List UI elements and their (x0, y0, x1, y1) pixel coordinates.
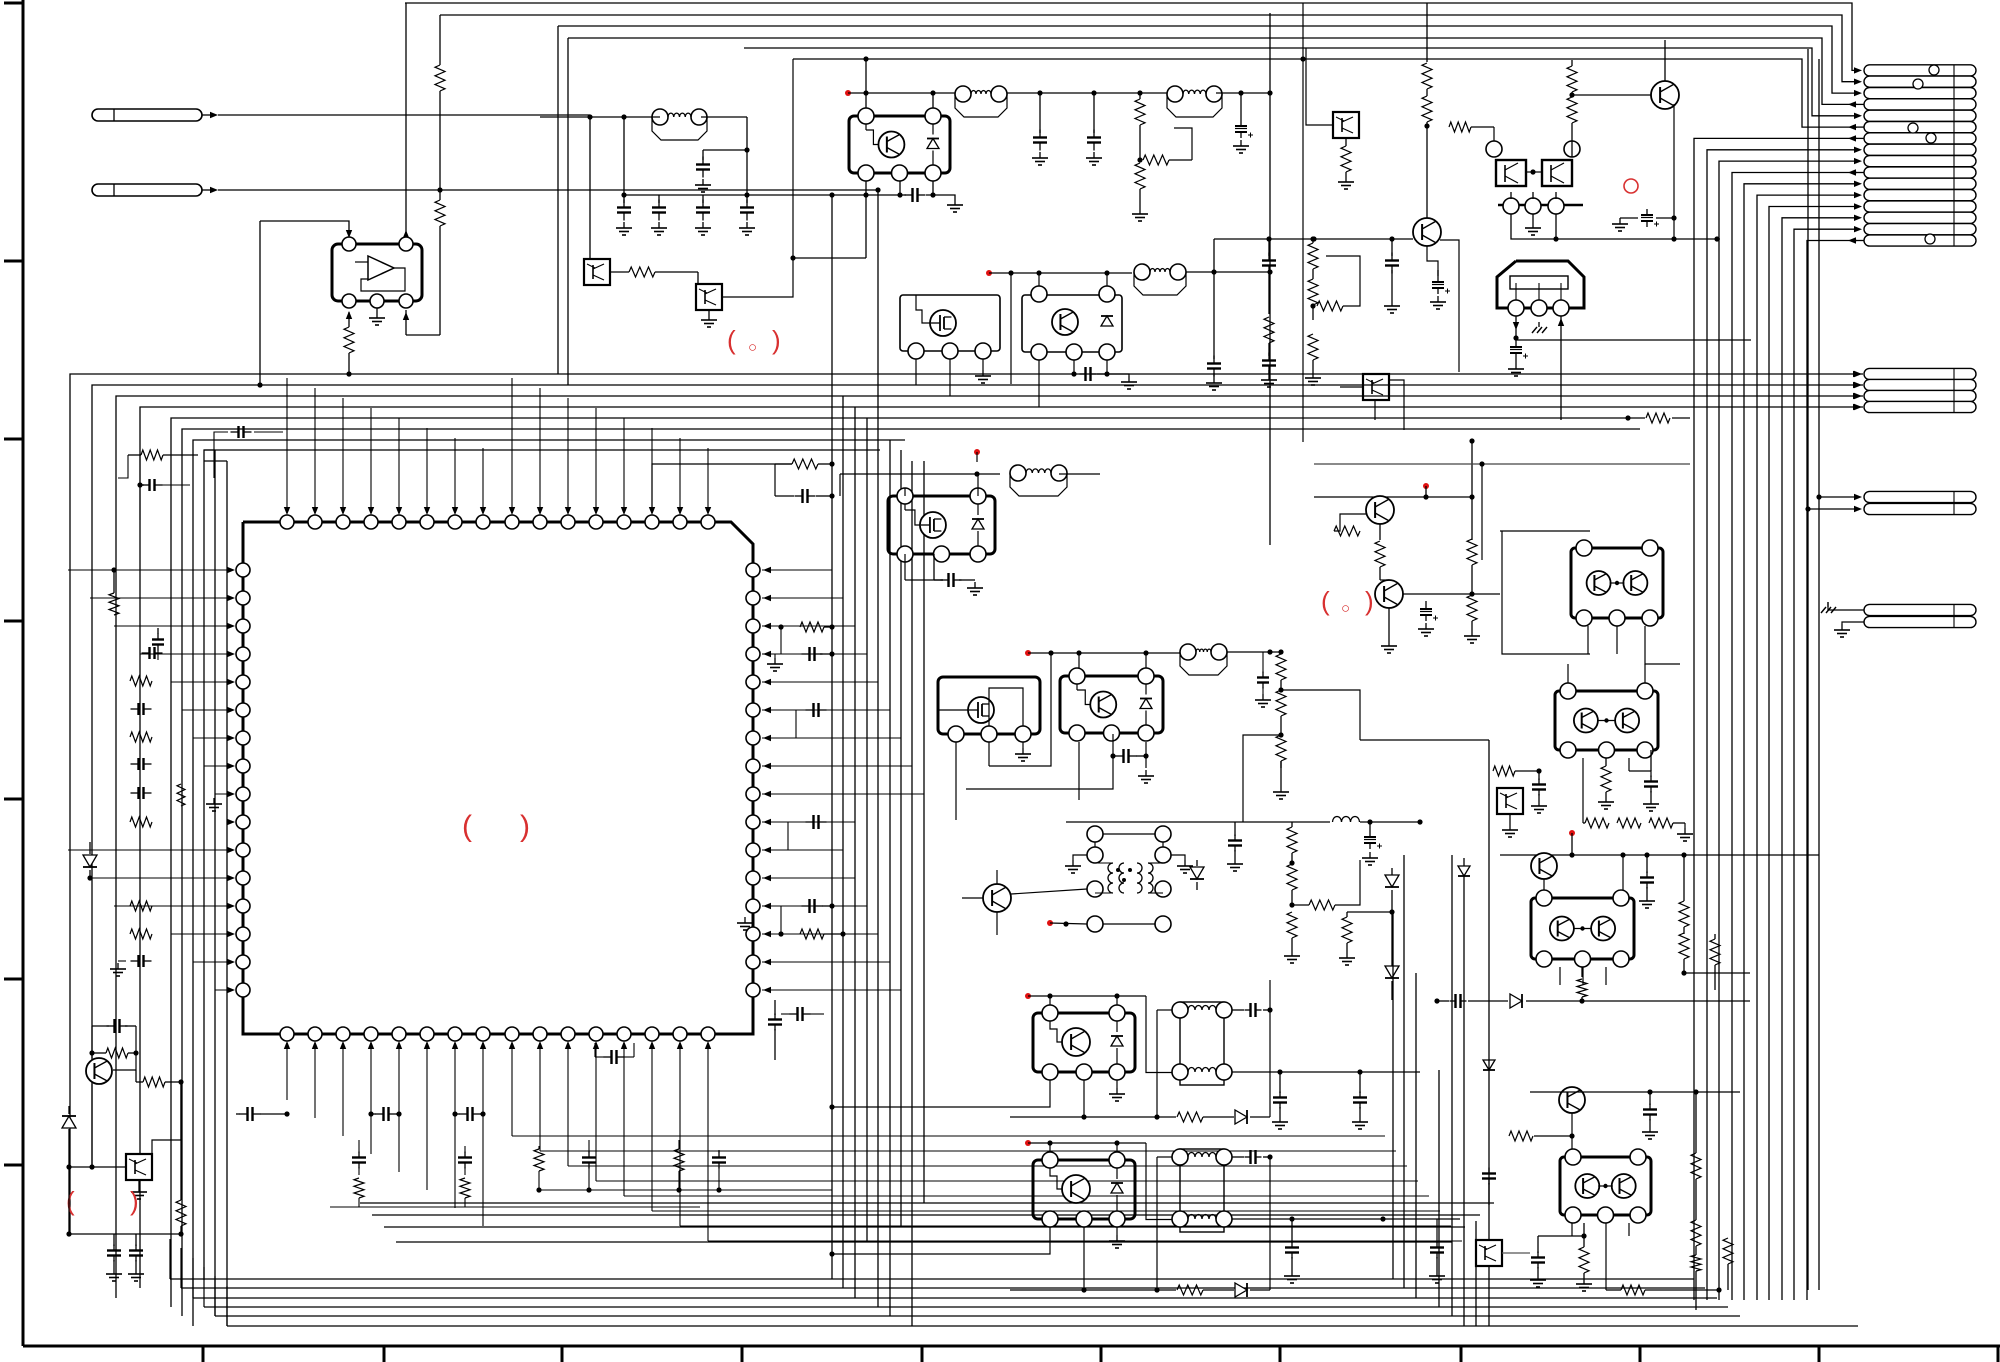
svg-text:○: ○ (748, 339, 757, 356)
svg-text:○: ○ (1341, 600, 1350, 617)
svg-text:(: ( (66, 1186, 75, 1216)
svg-text:): ) (1365, 586, 1374, 616)
svg-text:): ) (772, 325, 781, 355)
svg-text:): ) (520, 810, 530, 843)
svg-text:(: ( (1321, 586, 1330, 616)
svg-text:): ) (130, 1186, 139, 1216)
svg-text:(: ( (462, 810, 472, 843)
svg-text:(: ( (727, 325, 736, 355)
